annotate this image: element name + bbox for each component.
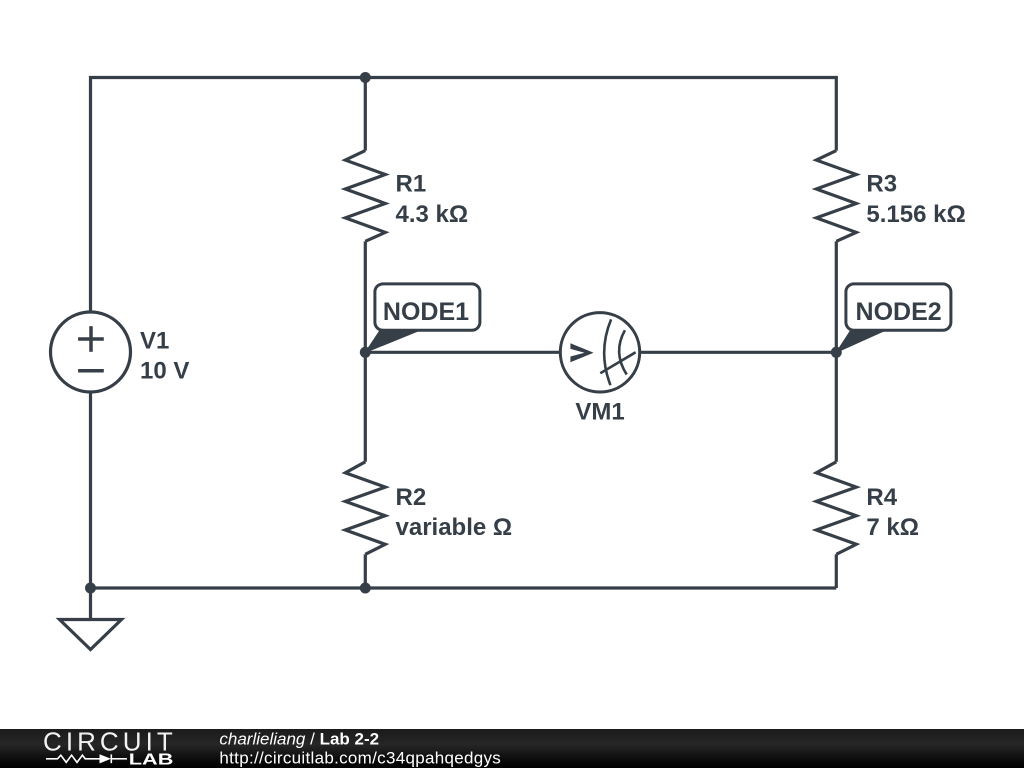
- svg-text:NODE1: NODE1: [383, 298, 469, 326]
- svg-text:R3: R3: [866, 170, 897, 197]
- junction dot top (R1/top rail): [360, 72, 371, 83]
- wire R3 bottom lead to NODE2: [835, 241, 838, 352]
- node label NODE1 tail: [364, 329, 420, 354]
- svg-text:LAB: LAB: [129, 751, 174, 768]
- svg-text:V1: V1: [140, 327, 169, 354]
- V1 plus sign: [78, 337, 104, 341]
- voltmeter VM1 circle: [560, 313, 639, 392]
- voltmeter VM1 needle: [600, 352, 635, 373]
- svg-text:R1: R1: [396, 170, 427, 197]
- wire top rail: left corner, top wire, right corner down to R3: [91, 78, 837, 313]
- junction node B dot (NODE2): [831, 347, 842, 358]
- voltmeter VM1 large arc: [604, 319, 611, 385]
- wire R1 top lead: [364, 78, 367, 151]
- node label NODE2 box: [846, 284, 951, 330]
- svg-text:4.3 kΩ: 4.3 kΩ: [396, 201, 469, 228]
- svg-text:NODE2: NODE2: [856, 298, 942, 326]
- svg-text:variable Ω: variable Ω: [396, 514, 513, 541]
- voltage source V1 circle: [51, 312, 131, 392]
- logo diode triangle: [100, 754, 112, 763]
- wire R2 bottom lead: [364, 554, 367, 588]
- resistor R1: [345, 151, 385, 242]
- voltmeter VM1 chevron: [570, 343, 593, 362]
- junction node A dot (NODE1): [360, 347, 371, 358]
- svg-text:http://circuitlab.com/c34qpahq: http://circuitlab.com/c34qpahqedgys: [219, 749, 501, 768]
- svg-text:R4: R4: [866, 484, 897, 511]
- wire V1 top lead: [89, 310, 92, 313]
- svg-text:5.156 kΩ: 5.156 kΩ: [866, 201, 965, 228]
- resistor R2: [345, 462, 385, 555]
- logo diode bar and wire: [110, 754, 112, 763]
- wire R2 top lead: [364, 352, 367, 462]
- wire middle left: NODE1 to voltmeter: [365, 351, 560, 354]
- resistor R4: [816, 462, 856, 555]
- svg-text:R2: R2: [396, 484, 427, 511]
- svg-text:charlieliang / Lab 2-2: charlieliang / Lab 2-2: [219, 729, 379, 748]
- svg-text:7 kΩ: 7 kΩ: [866, 514, 919, 541]
- junction dot bottom left (V1/ground): [85, 583, 96, 594]
- wire R1 bottom lead to NODE1: [364, 241, 367, 352]
- wire bottom rail: [91, 586, 837, 589]
- svg-text:VM1: VM1: [575, 399, 624, 426]
- wire middle right: voltmeter to NODE2: [640, 351, 837, 354]
- footer bar: [0, 729, 1024, 768]
- ground symbol: [60, 620, 122, 650]
- resistor R3: [816, 151, 856, 242]
- voltmeter VM1 small arc: [619, 330, 627, 374]
- node label NODE2 tail: [835, 329, 885, 354]
- junction dot bottom (R2/bottom rail): [360, 583, 371, 594]
- node label NODE1 box: [375, 284, 480, 330]
- wire V1 bottom lead down to ground: [89, 392, 92, 620]
- wire R4 top lead: [835, 352, 838, 462]
- wire R4 bottom lead: [835, 554, 838, 588]
- svg-text:10 V: 10 V: [140, 357, 189, 384]
- logo squiggle wire+resistor: [46, 755, 100, 762]
- V1 minus sign: [78, 369, 104, 373]
